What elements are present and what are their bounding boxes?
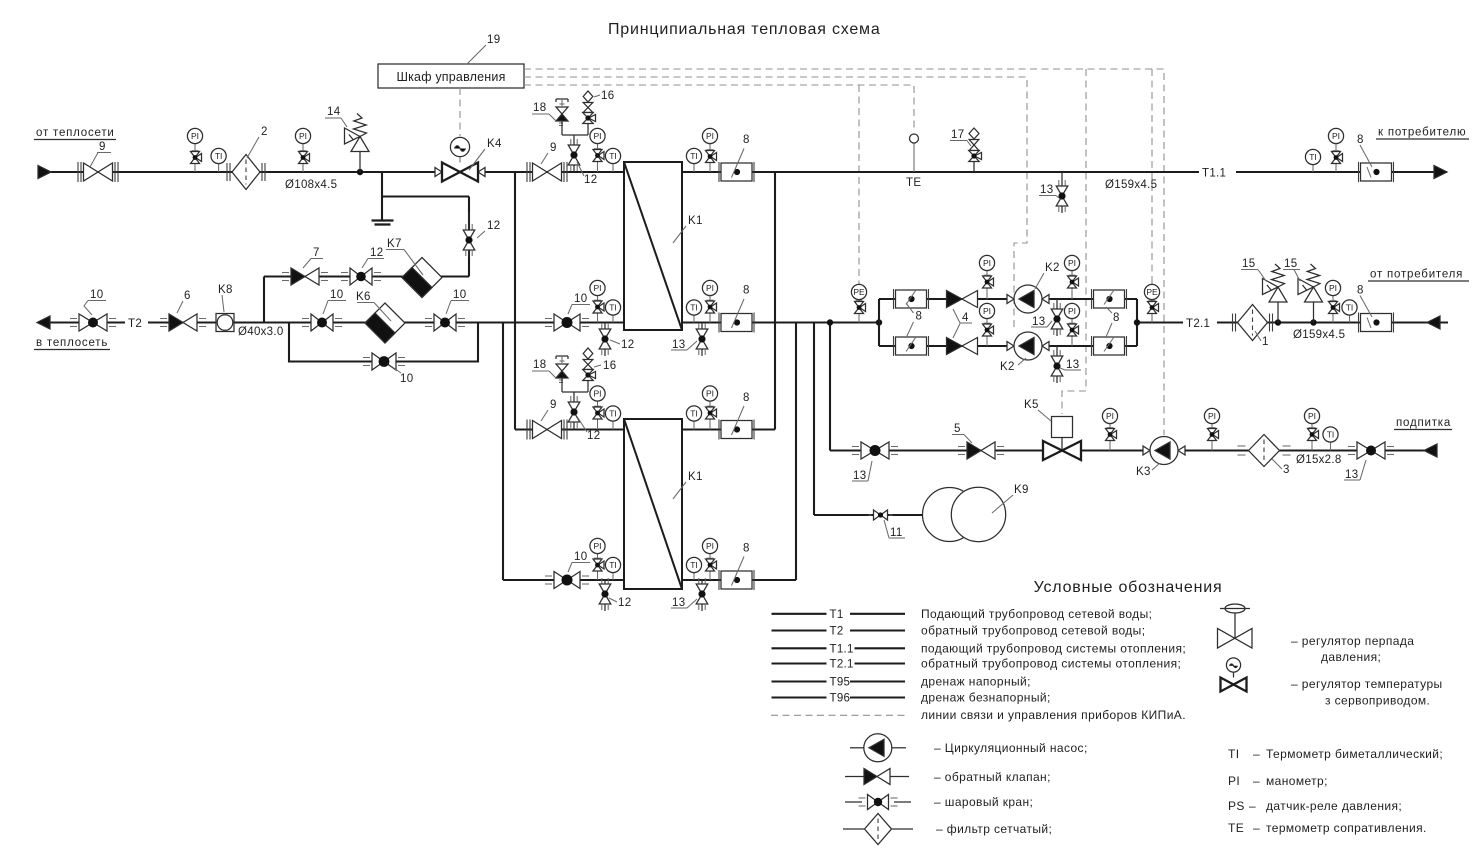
svg-text:PI: PI [1208, 411, 1216, 421]
svg-text:13: 13 [1066, 359, 1079, 371]
svg-text:дренаж напорный;: дренаж напорный; [921, 675, 1031, 689]
svg-text:16: 16 [603, 360, 616, 372]
expansion tank K9 [923, 488, 977, 542]
manometer PI with 3-way valve [597, 554, 599, 559]
drain valve 13 pump upper [1056, 299, 1058, 309]
svg-text:давления;: давления; [1321, 650, 1381, 664]
svg-text:13: 13 [672, 339, 685, 351]
svg-text:T1.1: T1.1 [830, 643, 854, 655]
svg-text:13: 13 [1345, 469, 1358, 481]
thermometer TI [612, 315, 614, 322]
svg-text:– фильтр сетчатый;: – фильтр сетчатый; [936, 822, 1052, 836]
svg-text:PI: PI [706, 131, 714, 141]
ball valve 10 on T2 [434, 314, 445, 331]
node junction [1310, 319, 1316, 325]
svg-text:–: – [1253, 747, 1260, 761]
svg-text:PI: PI [299, 131, 307, 141]
wire pump group connectors [878, 299, 880, 346]
svg-text:Подающий трубопровод сетевой в: Подающий трубопровод сетевой воды; [921, 607, 1152, 621]
svg-text:PE: PE [1146, 287, 1158, 297]
thermometer TI [1349, 315, 1351, 322]
flow device 8 on HX2 hot outlet [718, 420, 720, 440]
svg-text:подпитка: подпитка [1396, 417, 1451, 429]
wire riser to make-up line [829, 323, 831, 451]
wire upper branch K7 loop [264, 275, 469, 277]
svg-text:подающий трубопровод системы о: подающий трубопровод системы отопления; [921, 641, 1186, 655]
svg-text:PS: PS [1228, 799, 1245, 813]
svg-text:10: 10 [330, 289, 343, 301]
check valve 5 [967, 442, 981, 459]
svg-text:8: 8 [1357, 285, 1364, 297]
make-up pump K3 [1143, 446, 1150, 455]
control cabinet box (Шкаф управления) [378, 64, 524, 88]
thermometer TI [693, 573, 695, 580]
manometer PI with 3-way valve [709, 401, 711, 406]
svg-text:2: 2 [261, 126, 268, 138]
svg-text:Условные обозначения: Условные обозначения [1034, 579, 1223, 596]
flow arrow outlet T1.1 [1434, 166, 1447, 179]
svg-text:T2: T2 [830, 626, 844, 638]
sampling valve assembly 17 [969, 128, 979, 139]
check valve 6 [169, 314, 183, 331]
svg-text:10: 10 [574, 293, 587, 305]
svg-text:датчик-реле давления;: датчик-реле давления; [1266, 799, 1402, 813]
svg-text:K2: K2 [1045, 262, 1060, 274]
ground / drain symbol [381, 197, 383, 220]
manometer PI pump upper [986, 271, 988, 276]
ball valve 12 on K4 bypass [468, 212, 470, 230]
svg-text:PI: PI [1308, 411, 1316, 421]
svg-text:K4: K4 [487, 138, 502, 150]
thermometer TI [693, 421, 695, 429]
legend line T95 [772, 680, 827, 682]
svg-text:12: 12 [618, 597, 631, 609]
svg-text:10: 10 [90, 289, 103, 301]
wire pump group upper branch [879, 298, 1009, 300]
flow arrow make-up inlet [1424, 444, 1437, 457]
manometer PI with 3-way valve [1332, 296, 1334, 301]
svg-text:10: 10 [400, 373, 413, 385]
wire HX2 cold inlet [503, 579, 624, 581]
svg-text:PI: PI [1106, 411, 1114, 421]
svg-text:TI: TI [609, 560, 617, 570]
svg-text:TI: TI [690, 409, 698, 419]
flow device 8 on T2 [718, 313, 720, 333]
valve 9 (gate) on T1 inlet [84, 163, 99, 181]
svg-text:– Циркуляционный насос;: – Циркуляционный насос; [934, 741, 1088, 755]
svg-text:T2: T2 [128, 318, 142, 330]
svg-text:TI: TI [215, 151, 223, 161]
safety valve 15 first [1277, 302, 1279, 323]
thermometer TI [1330, 442, 1332, 450]
ball valve 10 on T2 [311, 314, 322, 331]
svg-text:Термометр биметаллический;: Термометр биметаллический; [1266, 747, 1443, 761]
svg-text:Ø108x4.5: Ø108x4.5 [285, 179, 337, 191]
thermometer TI [1312, 165, 1314, 172]
wire T2 return main [50, 321, 125, 323]
legend line T2.1 [772, 662, 827, 664]
flow arrow inlet T2.1 [1427, 316, 1440, 329]
flow device 8 pump outlet lower [1091, 336, 1093, 356]
svg-text:3: 3 [1283, 464, 1290, 476]
flow device 8 on T2.1 inlet [1358, 313, 1360, 333]
svg-text:1: 1 [1262, 336, 1269, 348]
ball valve 10 on T2 outlet [79, 314, 93, 331]
filter 2 (strainer) [232, 155, 260, 190]
svg-text:9: 9 [550, 142, 557, 154]
drain valve 13 pump lower [1056, 346, 1058, 356]
svg-text:к потребителю: к потребителю [1378, 127, 1466, 139]
manometer PI with 3-way valve [597, 296, 599, 301]
svg-text:10: 10 [453, 289, 466, 301]
manometer PI pump out lower [1071, 319, 1073, 324]
wire bypass lower loop [289, 323, 478, 362]
manometer PI with 3-way valve [302, 144, 304, 151]
svg-text:PI: PI [1332, 131, 1340, 141]
wire pump group lower branch [879, 345, 1009, 347]
ball valve 13 on make-up inlet [1357, 442, 1371, 459]
svg-text:9: 9 [550, 399, 557, 411]
check valve 4 lower [947, 338, 963, 355]
svg-text:10: 10 [574, 551, 587, 563]
ball valve 13 on make-up [861, 442, 875, 459]
svg-text:K9: K9 [1014, 484, 1029, 496]
manometer PI with 3-way valve [194, 144, 196, 151]
wire HX2 cold outlet [682, 579, 796, 581]
wire K4 bypass with ground drop [381, 172, 383, 197]
manometer PI with 3-way valve [1109, 424, 1111, 428]
thermometer TI [693, 315, 695, 322]
flow arrow outlet T2 [37, 316, 50, 329]
svg-text:термометр сопративления.: термометр сопративления. [1266, 821, 1427, 835]
manometer PI with 3-way valve [597, 401, 599, 406]
control line branch x1086 to solenoid K5 [1062, 69, 1086, 414]
svg-text:8: 8 [743, 543, 750, 555]
svg-text:– обратный клапан;: – обратный клапан; [934, 770, 1051, 784]
svg-text:12: 12 [587, 430, 600, 442]
svg-text:T2.1: T2.1 [1186, 318, 1210, 330]
relief assembly 16 [583, 91, 593, 102]
svg-text:Принципиальная тепловая схема: Принципиальная тепловая схема [608, 21, 881, 38]
wire HX2 hot outlet [682, 428, 775, 430]
filter 3 (strainer) [1249, 435, 1280, 467]
svg-text:PI: PI [706, 541, 714, 551]
control line y69 cabinet to x1164 down to pump K3 [524, 69, 1164, 435]
svg-text:Ø159x4.5: Ø159x4.5 [1293, 329, 1345, 341]
svg-text:TI: TI [609, 303, 617, 313]
thermometer TI [612, 164, 614, 172]
svg-text:PI: PI [983, 306, 991, 316]
svg-text:Ø15x2.8: Ø15x2.8 [1296, 454, 1342, 466]
svg-text:13: 13 [1032, 316, 1045, 328]
svg-text:6: 6 [184, 290, 191, 302]
svg-text:15: 15 [1284, 258, 1297, 270]
flow device 8 pump inlet upper [893, 289, 895, 309]
svg-text:9: 9 [99, 141, 106, 153]
svg-text:8: 8 [743, 134, 750, 146]
manometer PI with 3-way valve [597, 144, 599, 149]
svg-text:7: 7 [313, 247, 320, 259]
svg-text:– регулятор перпада: – регулятор перпада [1291, 634, 1414, 648]
svg-text:–: – [1249, 799, 1256, 813]
svg-text:в теплосеть: в теплосеть [36, 337, 108, 349]
svg-text:18: 18 [533, 102, 546, 114]
svg-text:PI: PI [593, 131, 601, 141]
safety valve 14 [359, 152, 361, 173]
legend pump symbol [850, 747, 864, 749]
svg-text:11: 11 [890, 527, 903, 539]
valve 9 (gate) before HX1 [533, 163, 548, 181]
wire branch to check-valve bypass [263, 277, 265, 323]
wire make-up line [830, 449, 1437, 451]
control valve K4 with actuator [459, 157, 461, 163]
legend check valve symbol [845, 776, 864, 778]
circulation pump K2 upper [1007, 295, 1014, 304]
svg-text:–: – [1253, 821, 1260, 835]
svg-text:8: 8 [1113, 312, 1120, 324]
node pump group split [876, 319, 882, 325]
svg-text:K7: K7 [387, 238, 402, 250]
svg-text:T95: T95 [830, 677, 851, 689]
svg-text:TI: TI [1346, 303, 1354, 313]
svg-text:K3: K3 [1136, 466, 1151, 478]
svg-text:8: 8 [743, 392, 750, 404]
svg-text:T2.1: T2.1 [830, 659, 854, 671]
legend line T96 [772, 696, 827, 698]
svg-text:8: 8 [1357, 134, 1364, 146]
manometer PI pump lower [986, 319, 988, 324]
svg-text:манометр;: манометр; [1266, 774, 1328, 788]
elevator nozzle K6 [365, 303, 405, 343]
flow device 8 on T1 [718, 162, 720, 182]
wire HX2 hot inlet [515, 428, 624, 430]
node pump group rejoin [1134, 319, 1140, 325]
check valve 4 upper [947, 291, 963, 308]
air vent assembly 18 [556, 98, 568, 100]
svg-text:19: 19 [487, 34, 500, 46]
svg-text:4: 4 [962, 312, 969, 324]
svg-text:PE: PE [853, 287, 865, 297]
control line branch to PE sensor right [1151, 69, 1153, 283]
thermometer TI [218, 164, 220, 172]
svg-text:5: 5 [954, 423, 961, 435]
flow device 8 on T1.1 outlet [1358, 162, 1360, 182]
svg-text:от потребителя: от потребителя [1370, 269, 1463, 281]
svg-text:Ø40x3.0: Ø40x3.0 [238, 326, 284, 338]
svg-text:K1: K1 [688, 215, 703, 227]
svg-text:K6: K6 [356, 291, 371, 303]
ball valve 10 before HX1 cold side [554, 314, 567, 331]
wire tank line [814, 514, 922, 516]
svg-text:8: 8 [916, 311, 923, 323]
svg-text:TI: TI [1327, 430, 1335, 440]
flow device 8 pump outlet upper [1091, 289, 1093, 309]
safety valve 15 second [1313, 302, 1315, 323]
drain valve 12 below HX2 [604, 580, 606, 584]
legend pressure regulator symbol [1225, 604, 1245, 613]
svg-text:13: 13 [672, 597, 685, 609]
legend line T1.1 [772, 647, 827, 649]
air vent assembly 18 [556, 355, 568, 357]
svg-text:от теплосети: от теплосети [36, 127, 115, 139]
svg-text:18: 18 [533, 359, 546, 371]
svg-text:Ø159x4.5: Ø159x4.5 [1105, 179, 1157, 191]
svg-text:16: 16 [601, 90, 614, 102]
temperature sensor TE [913, 143, 915, 172]
svg-text:TI: TI [690, 303, 698, 313]
svg-text:K1: K1 [688, 471, 703, 483]
svg-text:PI: PI [1228, 774, 1240, 788]
flow arrow inlet T1 [38, 166, 51, 179]
circulation pump K2 lower [1007, 342, 1014, 351]
svg-text:PI: PI [706, 283, 714, 293]
svg-text:дренаж безнапорный;: дренаж безнапорный; [921, 691, 1051, 705]
wire vent header [562, 134, 588, 136]
filter 1 (strainer) [1238, 305, 1268, 341]
svg-text:PI: PI [706, 389, 714, 399]
svg-text:15: 15 [1242, 258, 1255, 270]
drain valve 12 above HX2 inlet [573, 397, 575, 402]
pressure switch PE with valve [1151, 283, 1153, 285]
svg-text:Шкаф управления: Шкаф управления [396, 70, 505, 84]
svg-text:PI: PI [1329, 283, 1337, 293]
drain valve 12 above T1 [573, 140, 575, 145]
node junction [1275, 319, 1281, 325]
svg-text:– шаровый кран;: – шаровый кран; [934, 795, 1033, 809]
wire riser to HX2 cold side [502, 323, 504, 581]
svg-text:обратный трубопровод системы о: обратный трубопровод системы отопления; [921, 657, 1181, 671]
svg-text:PI: PI [593, 283, 601, 293]
flow restrictor K8 [216, 314, 234, 332]
svg-text:PI: PI [593, 541, 601, 551]
svg-text:обратный трубопровод сетевой в: обратный трубопровод сетевой воды; [921, 624, 1145, 638]
pressure switch PE with valve [858, 283, 860, 285]
ball valve 12 [350, 268, 361, 285]
control line y77 cabinet to x1027 down to pumps K2 [524, 77, 1027, 331]
svg-text:13: 13 [1040, 184, 1053, 196]
legend filter symbol [843, 828, 864, 830]
svg-text:TI: TI [690, 560, 698, 570]
legend ball valve symbol [845, 801, 862, 803]
manometer PI with 3-way valve [709, 554, 711, 559]
node junction on T1 [357, 169, 363, 175]
node junction [827, 319, 833, 325]
control line y85 cabinet to TE sensor [524, 85, 914, 131]
relief assembly 16 [583, 348, 593, 359]
legend line T2 [772, 629, 827, 631]
drain valve 13 below HX2 [701, 580, 703, 584]
ball valve 10 on bypass [372, 353, 384, 370]
svg-text:TE: TE [906, 177, 921, 189]
flow device 8 pump inlet lower [893, 336, 895, 356]
control line branch to PE sensor left [858, 85, 860, 283]
svg-text:T1.1: T1.1 [1202, 168, 1226, 180]
wire T1 supply main [50, 171, 624, 173]
wire vent header [562, 391, 588, 393]
svg-text:12: 12 [621, 339, 634, 351]
thermometer TI [612, 421, 614, 429]
svg-text:з сервоприводом.: з сервоприводом. [1325, 694, 1430, 708]
ball valve 10 before HX2 [554, 572, 567, 589]
control line from cabinet to K4 actuator [459, 88, 461, 136]
thermometer TI [693, 164, 695, 172]
svg-text:12: 12 [370, 247, 383, 259]
drain valve 12 below T2 [604, 323, 606, 330]
check valve 7 [291, 268, 305, 285]
wire riser middle to HX2 cold return [795, 323, 797, 581]
wire riser from T1 to HX2 return header [774, 172, 776, 430]
svg-text:PI: PI [593, 389, 601, 399]
drain valve 13 below T2 [701, 323, 703, 330]
svg-text:17: 17 [951, 129, 964, 141]
wire riser middle to tank K9 line [813, 323, 815, 516]
legend dashed control line [771, 714, 905, 716]
svg-text:12: 12 [584, 174, 597, 186]
svg-text:TI: TI [609, 409, 617, 419]
svg-text:PI: PI [1068, 258, 1076, 268]
svg-text:PI: PI [191, 131, 199, 141]
manometer PI with 3-way valve [709, 144, 711, 150]
svg-text:13: 13 [853, 470, 866, 482]
manometer PI with 3-way valve [709, 296, 711, 301]
svg-text:K2: K2 [1000, 361, 1015, 373]
drain valve 13 below T1 [1061, 172, 1063, 186]
svg-text:TI: TI [1309, 152, 1317, 162]
svg-text:K5: K5 [1024, 399, 1039, 411]
valve 9 (gate) before HX2 [533, 421, 548, 439]
heat exchanger K1 (upper) [624, 162, 682, 330]
thermometer TI [612, 573, 614, 580]
wire riser to lower heat exchanger hot side [514, 172, 516, 430]
legend line T1 [772, 613, 827, 615]
manometer PI pump out upper [1071, 271, 1073, 276]
heat exchanger K1 (lower) [624, 419, 682, 589]
svg-text:TI: TI [690, 151, 698, 161]
svg-text:12: 12 [487, 220, 500, 232]
svg-text:–: – [1253, 774, 1260, 788]
svg-text:PI: PI [983, 258, 991, 268]
svg-text:TI: TI [609, 151, 617, 161]
svg-text:– регулятор температуры: – регулятор температуры [1291, 677, 1443, 691]
valve 11 small [874, 510, 881, 520]
legend temperature regulator symbol [1226, 658, 1240, 672]
svg-text:T1: T1 [830, 609, 844, 621]
elevator nozzle K7 [402, 258, 442, 298]
svg-text:PI: PI [1068, 306, 1076, 316]
svg-text:линии связи и управления прибо: линии связи и управления приборов КИПиА. [921, 708, 1186, 722]
manometer PI with 3-way valve [1211, 424, 1213, 428]
svg-text:14: 14 [327, 106, 341, 118]
svg-text:TE: TE [1228, 821, 1244, 835]
svg-text:T96: T96 [830, 693, 851, 705]
manometer PI with 3-way valve [1311, 424, 1313, 428]
manometer PI with 3-way valve [1335, 144, 1337, 151]
svg-text:K8: K8 [218, 284, 233, 296]
svg-text:8: 8 [743, 285, 750, 297]
flow device 8 on HX2 cold outlet [718, 570, 720, 590]
solenoid valve K5 [1052, 417, 1073, 438]
svg-text:TI: TI [1228, 747, 1239, 761]
